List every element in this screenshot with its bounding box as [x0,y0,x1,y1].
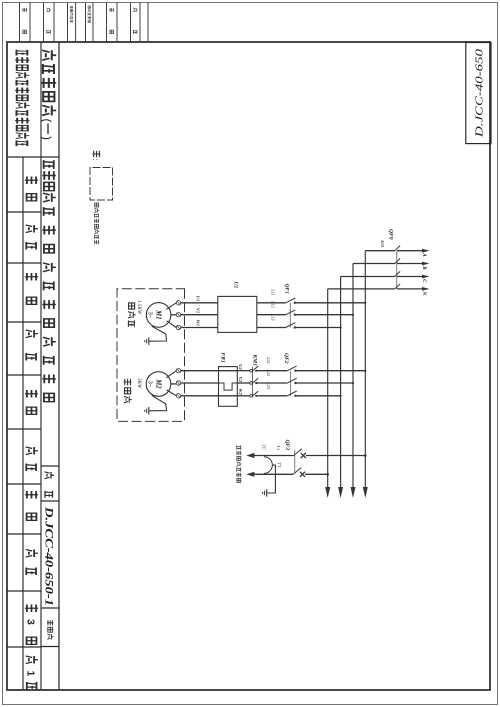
svg-text:QF2: QF2 [283,353,289,364]
QF2 pole 1 [287,366,296,371]
svg-text:M2: M2 [154,378,161,389]
KM1 pole 2 [257,382,260,384]
svg-text:3~: 3~ [146,381,152,388]
M2 motor circle [146,372,171,397]
svg-text:D.JCC-40-650: D.JCC-40-650 [473,48,485,138]
terminals ckt1 [176,301,180,305]
svg-text:KM1: KM1 [252,354,258,367]
supply phase N stub [328,288,395,290]
svg-text:QF3: QF3 [284,440,290,451]
M1 fan wires [166,303,176,310]
ckt2 wire 2 upper [352,382,354,384]
图 号 label [45,472,55,479]
ckt1 wire 2 upper [352,314,354,316]
svg-text:N: N [421,291,427,296]
svg-text:L23: L23 [266,381,271,389]
ckt1 wire 1 upper [364,302,366,304]
svg-text:3~: 3~ [146,312,152,319]
QF3 pole 1 [294,449,302,456]
QF0 linkage [396,251,398,289]
title block grid [58,42,60,690]
svg-text:M1: M1 [154,309,161,319]
svg-text:QF0: QF0 [388,229,394,240]
QF1 pole 2 [286,310,296,315]
ckt1 wires below U1 [181,302,218,304]
QF2 linkage [290,371,292,396]
T1 center tap to ground [267,465,276,493]
top-left inverted drawing number box [466,43,491,144]
control ground [266,489,268,497]
svg-text:): ) [40,136,54,140]
VFD box U1 [218,296,257,332]
svg-text:QF1: QF1 [284,284,290,295]
supply phase C stub [341,276,395,278]
bus B [352,264,354,488]
svg-text:L13: L13 [271,313,276,321]
svg-text:W2: W2 [238,388,243,395]
legend dashed box [90,168,113,201]
supply phase B stub [353,263,395,265]
title: 电气原理图(一) [42,50,56,60]
svg-text:A: A [421,252,427,257]
bus A [364,251,366,488]
svg-text:T1: T1 [277,463,282,468]
svg-text:.: . [92,245,98,246]
M2 fan wires [166,371,176,378]
legend text 方框内为现场元件 [95,203,99,207]
QF3 linkage [294,450,296,473]
svg-text:1.5KW: 1.5KW [136,300,142,315]
M1 motor circle [146,303,171,328]
svg-text:L1: L1 [276,445,281,451]
control wire from bus A [364,454,367,457]
svg-text:B: B [421,265,427,270]
共3页 [25,604,38,612]
svg-text:U1: U1 [196,296,201,302]
svg-text:L21: L21 [266,356,271,364]
M2 ground [149,395,167,411]
fuse mark x2 [300,472,305,477]
transformer arc T1 [264,457,272,474]
sign-off table in left margin [147,3,149,43]
text 仪表及控制电源 [237,446,241,450]
company name [16,50,27,56]
svg-text:1: 1 [25,671,37,677]
QF2 pole 2 [287,378,296,383]
svg-text:L22: L22 [266,369,271,377]
FR1 heater jog on middle wire [219,383,238,390]
QF2 pole 3 [287,391,296,396]
ckt2 wire 1 upper [364,370,366,372]
svg-text:L12: L12 [271,300,276,308]
svg-text:C: C [421,279,427,283]
项目名称 [44,160,54,169]
note 注: [93,151,101,157]
svg-text::: : [91,159,100,161]
svg-text:40A: 40A [380,240,385,248]
svg-text:3: 3 [25,619,37,625]
ckt2 wire 3 upper [340,395,342,397]
bus C [340,277,342,488]
svg-text:U1: U1 [233,282,239,289]
svg-text:V2: V2 [238,377,243,383]
control arrows down [246,453,254,458]
svg-text:V1: V1 [196,308,201,313]
svg-text:3KW: 3KW [136,378,142,389]
svg-text:FR1: FR1 [220,353,226,363]
QF3 pole 2 [293,468,301,475]
合同号 label [47,620,54,625]
KM1 linkage [252,367,254,398]
M1 ground [149,326,167,341]
fuse mark x1 [301,453,306,458]
ckt1 wire 3 upper [340,326,342,328]
svg-text:(: ( [40,119,54,123]
terminals ckt2 [176,369,180,373]
supply phase A stub [365,250,395,252]
control wire from bus N [326,473,329,476]
ckt2 wires through/below FR1 [219,370,238,372]
第1页 [26,656,38,664]
KM1 pole 3 [257,395,260,397]
svg-text:TC: TC [262,445,267,450]
bus N [327,289,329,488]
dashed field box [117,289,185,422]
QF1 linkage [289,303,291,328]
svg-text:U2: U2 [238,364,243,370]
QF1 pole 1 [286,298,296,303]
称重给料机项目专用图纸 [44,207,54,216]
thermal relay FR1 box [219,367,238,407]
KM1 pole 1 [257,370,260,372]
svg-text:D.JCC-40-650-1: D.JCC-40-650-1 [43,506,55,606]
svg-text:L11: L11 [271,288,276,295]
svg-text:W1: W1 [196,320,201,326]
row2 labels [25,176,38,184]
QF1 pole 3 [286,323,296,328]
